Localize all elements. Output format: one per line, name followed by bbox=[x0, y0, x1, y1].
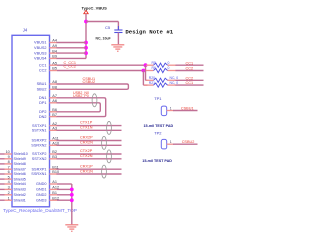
pin Shield5 (5) bbox=[0, 175, 26, 181]
svg-text:CRX2P: CRX2P bbox=[80, 136, 93, 140]
diff pair marker CRX1 bbox=[102, 165, 107, 178]
svg-text:VBUS2: VBUS2 bbox=[34, 46, 46, 50]
wire TP1 CSBU1 bbox=[173, 110, 198, 112]
pin GND2 (B1) bbox=[36, 191, 57, 197]
pin DN1 (A7) bbox=[39, 94, 57, 100]
svg-text:VBUS1: VBUS1 bbox=[34, 41, 46, 45]
pin SSTXP1 (A2) bbox=[32, 122, 57, 128]
svg-text:DN2: DN2 bbox=[39, 115, 47, 119]
svg-text:NC, 0: NC, 0 bbox=[170, 81, 179, 85]
pin Shield7 (7) bbox=[0, 165, 26, 171]
pin SSTXN2 (B3) bbox=[32, 155, 57, 161]
svg-text:Shield4: Shield4 bbox=[14, 182, 26, 186]
svg-text:CSBU2: CSBU2 bbox=[182, 140, 195, 144]
diff pair marker USB2 bbox=[92, 94, 97, 107]
ground under C5 bbox=[111, 45, 124, 51]
svg-text:CC1: CC1 bbox=[186, 61, 194, 65]
svg-text:A7: A7 bbox=[52, 94, 57, 98]
svg-text:C_CC2: C_CC2 bbox=[64, 64, 76, 68]
wire CTX2P bbox=[57, 153, 122, 155]
diff pair marker CTX2 bbox=[107, 150, 112, 163]
svg-text:CTX1P: CTX1P bbox=[80, 121, 93, 125]
resistor R21 bbox=[144, 81, 178, 87]
svg-text:CC1: CC1 bbox=[186, 81, 194, 85]
wire CTX1P bbox=[57, 125, 122, 127]
svg-text:GND0: GND0 bbox=[36, 182, 47, 186]
pin VBUS1 (A4) bbox=[34, 39, 57, 45]
wire CC2 (C_CC2) from pin B5 to R6 bbox=[57, 70, 147, 72]
svg-text:SBU1: SBU1 bbox=[37, 82, 47, 86]
pin VBUS4 (B9) bbox=[34, 55, 57, 61]
svg-text:1: 1 bbox=[170, 140, 172, 144]
resistor R20 bbox=[146, 76, 178, 82]
svg-text:9: 9 bbox=[8, 155, 10, 159]
wire crossover C_CC1 down to R20 bbox=[145, 65, 147, 80]
diff pair marker CRX2 bbox=[102, 136, 107, 149]
wire GND0 to ground bus bbox=[57, 183, 72, 185]
svg-text:CTX1N: CTX1N bbox=[80, 126, 93, 130]
svg-text:TP2: TP2 bbox=[154, 131, 162, 136]
wire R21 output CC1 bbox=[176, 84, 204, 86]
wire CRX1N bbox=[57, 173, 122, 175]
svg-text:A6: A6 bbox=[52, 99, 57, 103]
wire VBUS3 to VBUS bus bbox=[57, 52, 87, 54]
svg-text:A2: A2 bbox=[52, 122, 57, 126]
junction VBUS at VBUS1 bbox=[84, 41, 88, 45]
svg-text:A1: A1 bbox=[52, 180, 57, 184]
svg-text:NC, 0: NC, 0 bbox=[170, 76, 179, 80]
svg-text:B6: B6 bbox=[52, 108, 57, 112]
svg-text:8: 8 bbox=[8, 160, 10, 164]
svg-text:DN1: DN1 bbox=[39, 96, 47, 100]
wire GND2 to ground bus bbox=[57, 194, 72, 196]
svg-text:B5: B5 bbox=[52, 67, 57, 71]
svg-text:CC1: CC1 bbox=[39, 63, 47, 67]
pin CC2 (B5) bbox=[39, 67, 57, 73]
pin SSRXN1 (B10) bbox=[31, 170, 59, 176]
svg-text:Shield2: Shield2 bbox=[14, 193, 26, 197]
resistor R6 bbox=[146, 66, 176, 72]
svg-text:SSRXN1: SSRXN1 bbox=[31, 172, 46, 176]
pin GND3 (B12) bbox=[36, 196, 59, 202]
svg-text:B8: B8 bbox=[52, 86, 57, 90]
svg-text:CRX2N: CRX2N bbox=[80, 141, 93, 145]
wire R5 output CC1 bbox=[176, 64, 204, 66]
svg-text:B2: B2 bbox=[52, 150, 57, 154]
pin DP2 (B6) bbox=[39, 108, 57, 114]
svg-text:1: 1 bbox=[170, 106, 172, 110]
pin Shield8 (8) bbox=[0, 160, 26, 166]
svg-text:CTX2N: CTX2N bbox=[80, 154, 93, 158]
wire SBU1/SBU2 loop bbox=[57, 84, 129, 89]
svg-text:0: 0 bbox=[168, 66, 170, 70]
diff pair marker CTX1 bbox=[107, 121, 112, 134]
pin 1 of TP1 bbox=[167, 110, 174, 112]
svg-text:C5: C5 bbox=[105, 25, 111, 30]
svg-text:SSRXP2: SSRXP2 bbox=[32, 139, 47, 143]
test pad TP2 bbox=[154, 131, 167, 149]
wire R6 output CC2 bbox=[176, 70, 204, 72]
svg-text:B9: B9 bbox=[52, 55, 57, 59]
pin SSTXN1 (A3) bbox=[32, 127, 57, 133]
wire TypeC_VBUS vertical bbox=[85, 14, 87, 59]
pin Shield4 (4) bbox=[0, 180, 26, 186]
svg-text:15-mil TEST PAD: 15-mil TEST PAD bbox=[144, 124, 174, 128]
svg-text:GND2: GND2 bbox=[36, 193, 47, 197]
svg-text:CC2: CC2 bbox=[186, 67, 194, 71]
svg-text:CC2: CC2 bbox=[39, 69, 47, 73]
svg-text:Shield10: Shield10 bbox=[14, 152, 28, 156]
svg-text:DP1: DP1 bbox=[39, 101, 46, 105]
svg-text:B4: B4 bbox=[52, 49, 57, 53]
svg-text:SSTXP1: SSTXP1 bbox=[32, 124, 47, 128]
wire GND3 to ground bus bbox=[57, 199, 72, 201]
svg-text:CRX1P: CRX1P bbox=[80, 164, 93, 168]
svg-text:J4: J4 bbox=[23, 28, 28, 33]
svg-text:A5: A5 bbox=[52, 61, 57, 65]
pin Shield2 (2) bbox=[0, 191, 26, 197]
svg-text:NC, 10uF: NC, 10uF bbox=[96, 36, 112, 40]
wire VBUS2 to VBUS bus bbox=[57, 47, 87, 49]
svg-text:6: 6 bbox=[8, 170, 10, 174]
svg-text:R21: R21 bbox=[149, 81, 155, 85]
pin DN2 (B7) bbox=[39, 113, 57, 119]
svg-text:0: 0 bbox=[168, 61, 170, 65]
wire ground bus vertical bbox=[71, 184, 73, 224]
svg-text:A8: A8 bbox=[52, 80, 57, 84]
pin SBU1 (A8) bbox=[37, 80, 57, 86]
svg-text:SSRXP1: SSRXP1 bbox=[32, 167, 47, 171]
svg-text:Shield5: Shield5 bbox=[14, 177, 26, 181]
svg-text:CC2: CC2 bbox=[186, 76, 194, 80]
wire USB2_P0 loop DP1-DP2 bbox=[57, 103, 101, 112]
pin Shield3 (3) bbox=[0, 186, 26, 192]
svg-text:R20: R20 bbox=[149, 76, 155, 80]
svg-text:7: 7 bbox=[8, 165, 10, 169]
wire C5 to ground bbox=[117, 33, 119, 45]
pin Shield10 (10) bbox=[0, 150, 28, 156]
capacitor C5 bbox=[105, 25, 123, 36]
pin VBUS3 (B4) bbox=[34, 49, 57, 55]
svg-text:Design Note #1: Design Note #1 bbox=[125, 28, 173, 35]
wire GND1 to ground bus bbox=[57, 188, 72, 190]
test pad TP1 bbox=[154, 96, 167, 115]
svg-text:Shield9: Shield9 bbox=[14, 157, 26, 161]
svg-text:SSTXN1: SSTXN1 bbox=[32, 129, 47, 133]
pin GND0 (A1) bbox=[36, 180, 57, 186]
ground under connector bbox=[65, 225, 78, 231]
junction VBUS at VBUS2 bbox=[84, 46, 88, 50]
pin 1 of TP2 bbox=[167, 143, 174, 145]
svg-text:GND3: GND3 bbox=[36, 198, 47, 202]
wire CRX1P bbox=[57, 168, 122, 170]
pin Shield1 (1) bbox=[0, 196, 26, 202]
svg-text:A4: A4 bbox=[52, 39, 57, 43]
wire TP2 CSBU2 bbox=[173, 143, 198, 145]
svg-text:A9: A9 bbox=[52, 44, 57, 48]
wire VBUS4 to VBUS bus bbox=[57, 57, 87, 59]
svg-text:VBUS4: VBUS4 bbox=[34, 57, 46, 61]
svg-text:SSRXN2: SSRXN2 bbox=[31, 144, 46, 148]
junction VBUS at VBUS3 bbox=[84, 51, 88, 55]
svg-text:Shield8: Shield8 bbox=[14, 162, 26, 166]
wire VBUS to capacitor C5 bbox=[86, 21, 118, 23]
svg-text:B1: B1 bbox=[52, 191, 57, 195]
junction VBUS cap branch bbox=[84, 20, 88, 24]
svg-text:CSBU1: CSBU1 bbox=[181, 106, 194, 110]
svg-text:15-mil TEST PAD: 15-mil TEST PAD bbox=[142, 159, 172, 163]
pin SSTXP2 (B2) bbox=[32, 150, 57, 156]
pin Shield6 (6) bbox=[0, 170, 26, 176]
wire CRX2P bbox=[57, 140, 122, 142]
svg-text:1: 1 bbox=[8, 196, 10, 200]
svg-text:VBUS3: VBUS3 bbox=[34, 51, 46, 55]
pin SBU2 (B8) bbox=[37, 86, 57, 92]
svg-text:A3: A3 bbox=[52, 127, 57, 131]
wire USB2_N0 loop DN1-DN2 bbox=[57, 98, 106, 117]
junction C_CC2 crossover bbox=[142, 69, 146, 73]
svg-text:Shield6: Shield6 bbox=[14, 172, 26, 176]
wire R20 output CC2 bbox=[176, 79, 204, 81]
connector J4 body bbox=[12, 35, 50, 207]
svg-text:Shield1: Shield1 bbox=[14, 198, 26, 202]
pin GND1 (A12) bbox=[36, 186, 59, 192]
svg-text:R5: R5 bbox=[152, 61, 156, 65]
svg-text:TP1: TP1 bbox=[154, 96, 162, 101]
pin CC1 (A5) bbox=[39, 61, 57, 67]
svg-text:USB2_P0: USB2_P0 bbox=[73, 94, 89, 98]
pin SSRXP2 (A11) bbox=[32, 137, 59, 143]
svg-text:2: 2 bbox=[8, 191, 10, 195]
svg-text:DP2: DP2 bbox=[39, 110, 46, 114]
svg-text:GND1: GND1 bbox=[36, 188, 47, 192]
svg-text:CTX2P: CTX2P bbox=[80, 149, 93, 153]
wire VBUS1 to VBUS bus bbox=[57, 42, 87, 44]
wire crossover C_CC2 down to R21 bbox=[142, 71, 144, 86]
svg-text:10: 10 bbox=[6, 150, 10, 154]
svg-text:CSBU2: CSBU2 bbox=[83, 80, 96, 84]
wire CC1 (C_CC1) from pin A5 to R5 bbox=[57, 64, 147, 66]
svg-text:Shield7: Shield7 bbox=[14, 167, 26, 171]
pin VBUS2 (A9) bbox=[34, 44, 57, 50]
svg-text:SSTXP2: SSTXP2 bbox=[32, 152, 47, 156]
power symbol TypeC_VBUS bbox=[82, 5, 108, 13]
pin SSRXN2 (A10) bbox=[31, 142, 59, 148]
svg-text:SBU2: SBU2 bbox=[37, 88, 47, 92]
svg-text:B7: B7 bbox=[52, 113, 57, 117]
svg-text:4: 4 bbox=[8, 180, 10, 184]
svg-text:R6: R6 bbox=[152, 66, 156, 70]
svg-text:5: 5 bbox=[8, 175, 10, 179]
wire CTX2N bbox=[57, 158, 122, 160]
resistor R5 bbox=[146, 61, 176, 67]
svg-text:SSTXN2: SSTXN2 bbox=[32, 157, 47, 161]
svg-text:TypeC_Receptacle_DualSMT_TOP: TypeC_Receptacle_DualSMT_TOP bbox=[3, 208, 77, 213]
junction ground bus y194.8 bbox=[70, 193, 74, 197]
svg-text:B3: B3 bbox=[52, 155, 57, 159]
svg-text:3: 3 bbox=[8, 186, 10, 190]
junction C_CC1 crossover bbox=[144, 63, 148, 67]
pin SSRXP1 (B11) bbox=[32, 165, 59, 171]
pin DP1 (A6) bbox=[39, 99, 57, 105]
wire CRX2N bbox=[57, 144, 122, 146]
junction ground bus y200.2 bbox=[70, 198, 74, 202]
svg-text:Shield3: Shield3 bbox=[14, 188, 26, 192]
pin Shield9 (9) bbox=[0, 155, 26, 161]
wire CTX1N bbox=[57, 129, 122, 131]
svg-text:CRX1N: CRX1N bbox=[80, 169, 93, 173]
svg-text:TypeC_VBUS: TypeC_VBUS bbox=[82, 5, 108, 10]
junction ground bus y189.4 bbox=[70, 188, 74, 192]
